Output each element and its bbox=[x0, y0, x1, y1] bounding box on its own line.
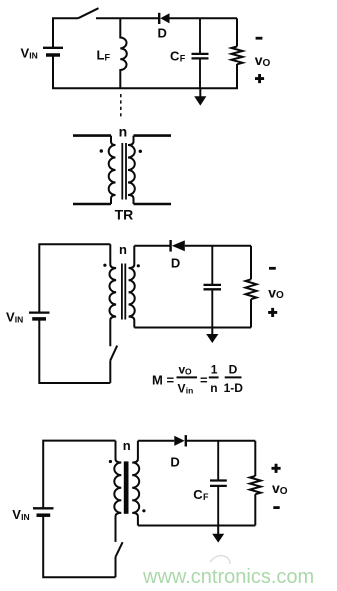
svg-text:C: C bbox=[170, 48, 180, 63]
svg-text:O: O bbox=[280, 486, 288, 497]
svg-text:n: n bbox=[123, 438, 131, 453]
formula M = vO/Vin = 1/n * D/(1-D) bbox=[152, 363, 243, 396]
switch S (bottom circuit) bbox=[116, 542, 123, 557]
bottom wire (top circuit) bbox=[53, 55, 237, 88]
battery V_IN (top circuit) bbox=[43, 48, 63, 55]
capacitor C (middle circuit) bbox=[204, 246, 222, 328]
switch S (middle circuit) bbox=[110, 346, 117, 361]
svg-text:V: V bbox=[6, 310, 15, 325]
svg-text:=: = bbox=[200, 373, 208, 388]
wire resistor to bottom-right corner bbox=[236, 64, 238, 88]
bottom wire (bottom circuit) bbox=[138, 525, 255, 527]
diode D (middle circuit) bbox=[171, 240, 185, 252]
svg-text:C: C bbox=[193, 487, 203, 502]
label minus (bottom output) bbox=[273, 506, 279, 509]
svg-text:D: D bbox=[170, 454, 179, 469]
label minus (top output) bbox=[256, 37, 263, 40]
svg-text:IN: IN bbox=[21, 512, 30, 522]
capacitor CF (bottom circuit) bbox=[210, 441, 227, 526]
resistor load (middle circuit) bbox=[246, 279, 257, 299]
diode D (bottom circuit) bbox=[174, 435, 186, 446]
transformer secondary winding (middle) bbox=[129, 246, 135, 328]
primary phase dot (middle) bbox=[103, 264, 106, 267]
wire switch to bottom (bottom) bbox=[115, 557, 117, 577]
svg-text:n: n bbox=[210, 381, 217, 395]
transformer primary winding (middle) bbox=[109, 244, 116, 346]
transformer TR bottom-right lead bbox=[134, 203, 172, 206]
wire switch to diode bbox=[96, 17, 158, 19]
switch S1 (top circuit) bbox=[78, 8, 99, 18]
svg-text:M =: M = bbox=[152, 373, 174, 388]
transformer TR bottom-left lead bbox=[73, 203, 111, 206]
wire diode to top-right corner bbox=[170, 17, 238, 19]
transformer TR primary phase dot bbox=[100, 149, 103, 152]
svg-text:n: n bbox=[119, 123, 128, 139]
svg-text:F: F bbox=[105, 52, 111, 62]
svg-text:O: O bbox=[263, 58, 271, 69]
label plus (middle output) bbox=[268, 308, 277, 317]
primary phase dot (bottom) bbox=[109, 460, 112, 463]
label VIN (middle circuit) bbox=[6, 310, 23, 325]
svg-text:D: D bbox=[158, 26, 167, 41]
svg-text:V: V bbox=[21, 45, 30, 60]
svg-text:www.cntronics.com: www.cntronics.com bbox=[142, 566, 314, 588]
svg-text:TR: TR bbox=[115, 207, 134, 223]
svg-text:O: O bbox=[276, 290, 284, 301]
transformer TR secondary winding bbox=[128, 136, 135, 204]
transformer TR primary winding bbox=[109, 136, 116, 204]
secondary phase dot (bottom) bbox=[142, 509, 145, 512]
label plus (top output) bbox=[255, 74, 264, 83]
battery V_IN (middle circuit) bbox=[29, 313, 50, 319]
wire resistor to bottom (middle) bbox=[250, 299, 252, 327]
label CF (bottom circuit) bbox=[193, 487, 209, 502]
wire resistor to bottom (bottom) bbox=[254, 494, 256, 525]
label vO (bottom output) bbox=[272, 480, 288, 497]
svg-text:1-D: 1-D bbox=[224, 381, 244, 395]
ground (bottom circuit) bbox=[212, 526, 224, 543]
ground (middle circuit) bbox=[206, 328, 218, 344]
label VIN (bottom circuit) bbox=[12, 507, 29, 522]
transformer secondary winding (bottom) bbox=[132, 441, 139, 526]
svg-text:F: F bbox=[203, 492, 209, 502]
transformer TR secondary phase dot bbox=[139, 150, 142, 153]
label plus (bottom output) bbox=[272, 464, 281, 473]
wire secondary to diode (middle) bbox=[134, 245, 170, 247]
wire top-right corner down to resistor bbox=[236, 18, 238, 46]
svg-text:V: V bbox=[178, 382, 186, 396]
watermark squiggle bbox=[210, 556, 230, 564]
svg-text:n: n bbox=[119, 242, 127, 257]
svg-text:O: O bbox=[185, 366, 192, 376]
capacitor CF (top circuit) bbox=[192, 18, 209, 88]
transformer core (bottom) bbox=[124, 461, 129, 513]
resistor load (bottom circuit) bbox=[250, 476, 261, 494]
wire diode to top-right corner (bottom) bbox=[186, 440, 255, 442]
dashed link to transformer bbox=[120, 94, 122, 117]
bottom wire (middle circuit) bbox=[134, 327, 251, 329]
svg-text:1: 1 bbox=[211, 363, 218, 377]
transformer primary winding (bottom) bbox=[114, 441, 121, 542]
label vO (middle output) bbox=[268, 284, 284, 301]
wire diode to top-right corner (middle) bbox=[185, 245, 251, 247]
wire battery top loop (middle) bbox=[39, 244, 110, 312]
label VIN (top circuit) bbox=[21, 45, 38, 60]
label CF (top circuit) bbox=[170, 48, 186, 63]
diode D (top circuit) bbox=[159, 13, 169, 24]
secondary phase dot (middle) bbox=[137, 264, 140, 267]
label vO (top output) bbox=[255, 52, 271, 69]
wire top-right down to resistor (bottom) bbox=[254, 441, 256, 476]
label LF bbox=[97, 47, 111, 62]
transformer core (middle) bbox=[121, 264, 126, 320]
svg-text:IN: IN bbox=[29, 50, 38, 60]
wire switch to bottom (middle) bbox=[109, 360, 111, 383]
svg-text:D: D bbox=[171, 255, 180, 270]
label minus (middle output) bbox=[269, 267, 276, 270]
svg-text:D: D bbox=[229, 363, 238, 377]
wire battery bottom loop (bottom) bbox=[43, 516, 115, 577]
svg-text:L: L bbox=[97, 47, 105, 62]
svg-text:F: F bbox=[180, 53, 186, 63]
inductor LF bbox=[120, 18, 127, 88]
wire battery top loop (bottom) bbox=[43, 441, 115, 508]
svg-text:IN: IN bbox=[15, 315, 23, 325]
resistor load RL (top circuit) bbox=[231, 47, 242, 65]
transformer TR top-left lead bbox=[73, 134, 111, 137]
wire top-right down to resistor (middle) bbox=[250, 246, 252, 279]
ground (top circuit) bbox=[194, 88, 206, 105]
svg-text:V: V bbox=[12, 507, 21, 522]
wire secondary to diode (bottom) bbox=[138, 440, 174, 442]
transformer TR top-right lead bbox=[134, 134, 172, 137]
transformer TR core bbox=[121, 143, 127, 200]
wire battery bottom loop (middle) bbox=[39, 320, 110, 384]
wire battery top to switch bbox=[53, 18, 78, 47]
svg-text:in: in bbox=[186, 386, 194, 396]
battery V_IN (bottom circuit) bbox=[33, 508, 54, 515]
